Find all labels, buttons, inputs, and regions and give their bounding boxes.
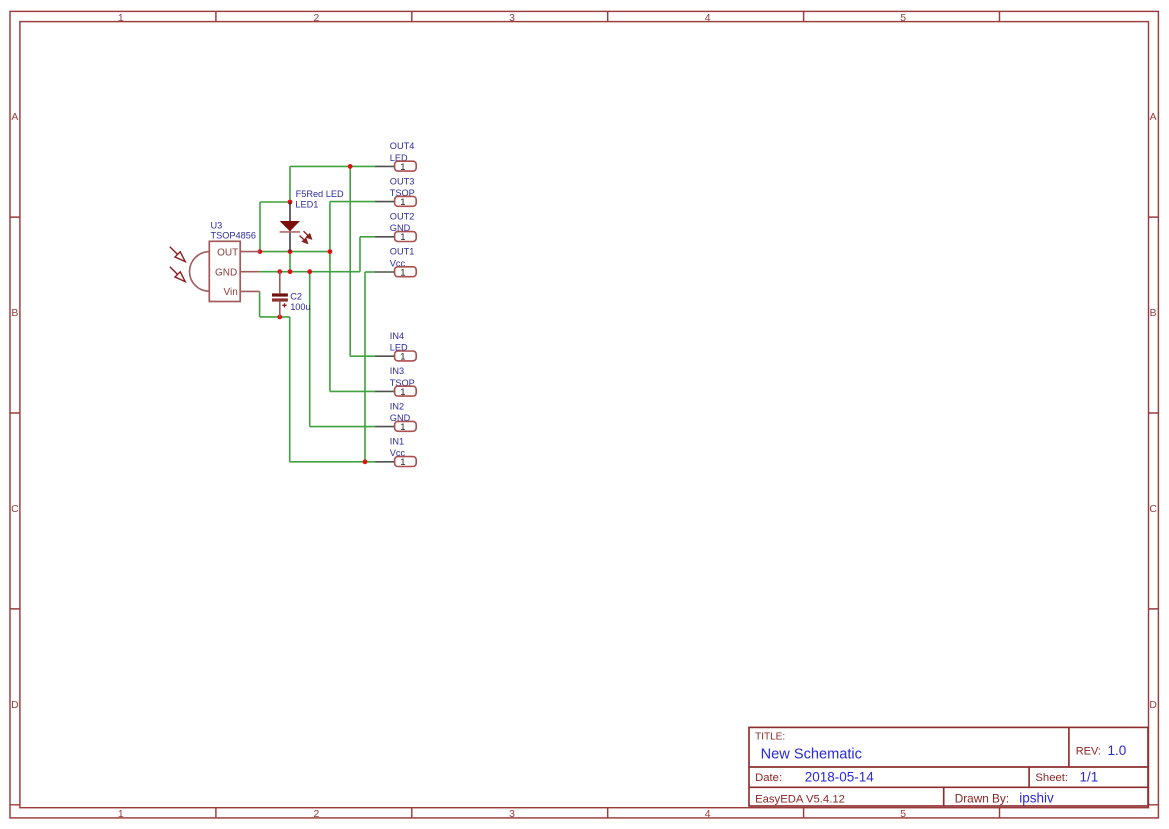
C2 top plate (272, 293, 288, 296)
LED1 emission arrow 2 (300, 236, 308, 244)
connector pin OUT1 (Vcc) (375, 247, 416, 279)
junction Vcc at IN1 row (363, 459, 368, 464)
connector pin IN4 (LED) (375, 331, 416, 363)
svg-text:D: D (1149, 700, 1157, 711)
pin pad box IN2 (395, 421, 417, 431)
wire net LED: IN4 row horizontal (350, 355, 376, 357)
svg-text:C: C (1149, 504, 1157, 515)
svg-text:1: 1 (400, 352, 405, 363)
svg-text:IN3: IN3 (390, 366, 404, 376)
LED1 pin line vertical (289, 202, 291, 252)
wire net GND: row horizontal from U3 (260, 271, 360, 273)
junction U3 OUT pin (258, 249, 263, 254)
wire net LED: LED1 anode riser (289, 166, 291, 202)
IC U3 TSOP4856 (170, 220, 260, 301)
pin line IN1 (375, 461, 394, 463)
junction C2 top on GND row (277, 269, 282, 274)
wire net Vcc: vertical to IN1 row (289, 317, 291, 462)
svg-text:4: 4 (705, 809, 711, 820)
svg-text:F5Red LED: F5Red LED (296, 189, 344, 199)
C2 top lead (279, 272, 281, 294)
svg-text:Drawn By:: Drawn By: (955, 791, 1009, 805)
wire net GND: OUT2 row horizontal (360, 236, 376, 238)
wire net Vcc: to capacitor bottom (260, 316, 290, 318)
svg-text:1: 1 (118, 809, 124, 820)
svg-text:1.0: 1.0 (1108, 743, 1127, 758)
connector pin OUT2 (GND) (375, 212, 416, 244)
SCHEMATIC (170, 164, 376, 464)
svg-text:U3: U3 (211, 220, 223, 230)
C2 plus sign (282, 303, 286, 307)
svg-text:5: 5 (900, 13, 906, 24)
svg-text:3: 3 (509, 809, 515, 820)
pin pad box OUT4 (395, 161, 417, 171)
connector pin OUT3 (TSOP) (375, 176, 416, 208)
pin line OUT1 (375, 271, 394, 273)
connector pin OUT4 (LED) (375, 141, 416, 173)
C2 bottom lead (279, 302, 281, 317)
wire net TSOP: OUT row horizontal (260, 251, 330, 253)
svg-text:2018-05-14: 2018-05-14 (805, 769, 875, 784)
svg-text:1: 1 (400, 422, 405, 433)
junction net LED at OUT4 row (348, 164, 353, 169)
pin line OUT3 (375, 201, 394, 203)
C2 bottom plate (272, 298, 288, 301)
wire net GND: IN2 row horizontal (310, 426, 377, 428)
U3 IR arrow 1 (170, 247, 185, 262)
LED1 emission arrow 1 (304, 231, 312, 239)
CONNECTOR PINS (375, 141, 416, 468)
pin pad box IN4 (395, 351, 417, 361)
svg-text:5: 5 (900, 809, 906, 820)
svg-text:C: C (11, 504, 19, 515)
wire LED1 bypass: left from anode (260, 201, 290, 203)
svg-text:1/1: 1/1 (1080, 769, 1099, 784)
pin pad box IN1 (395, 457, 417, 467)
svg-text:ipshiv: ipshiv (1019, 790, 1054, 805)
svg-text:TITLE:: TITLE: (755, 732, 785, 743)
svg-text:LED1: LED1 (295, 200, 318, 210)
svg-text:1: 1 (400, 232, 405, 243)
svg-text:IN2: IN2 (390, 401, 404, 411)
TITLE BLOCK (749, 727, 1148, 806)
svg-text:REV:: REV: (1076, 745, 1101, 757)
pin line OUT4 (375, 165, 394, 167)
pin pad box OUT3 (395, 196, 417, 206)
svg-text:TSOP4856: TSOP4856 (211, 231, 256, 241)
junction net TSOP riser (328, 249, 333, 254)
pin pad box IN3 (395, 386, 417, 396)
pin line IN2 (375, 426, 394, 428)
svg-text:1: 1 (400, 162, 405, 173)
LED1 triangle (280, 221, 300, 231)
wire net LED: OUT4 row horizontal (290, 165, 376, 167)
svg-text:OUT2: OUT2 (390, 212, 415, 222)
capacitor C2 (272, 272, 311, 317)
wire net TSOP: OUT3 row horizontal (330, 201, 376, 203)
wire LED cathode to GND row (289, 252, 291, 272)
connector pin IN2 (GND) (375, 401, 416, 433)
connector pin IN1 (Vcc) (375, 437, 416, 469)
wire net TSOP: vertical OUT3 to IN3 (329, 202, 331, 392)
svg-text:OUT: OUT (217, 247, 238, 258)
pin pad box OUT1 (395, 267, 417, 277)
U3 pin Vin line (240, 290, 259, 292)
svg-text:2: 2 (314, 13, 320, 24)
svg-text:A: A (11, 112, 18, 123)
svg-text:1: 1 (400, 457, 405, 468)
wire net Vcc: IN1 row horizontal (290, 461, 377, 463)
pin line IN3 (375, 390, 394, 392)
svg-text:Date:: Date: (755, 772, 782, 784)
svg-text:B: B (11, 308, 18, 319)
svg-text:C2: C2 (290, 291, 302, 301)
svg-text:EasyEDA V5.4.12: EasyEDA V5.4.12 (755, 793, 845, 805)
wire net TSOP: IN3 row horizontal (330, 390, 376, 392)
svg-text:OUT1: OUT1 (390, 247, 415, 257)
junction C2 bottom on Vcc (277, 315, 282, 320)
U3 body (209, 241, 240, 301)
svg-text:1: 1 (400, 267, 405, 278)
svg-text:GND: GND (215, 267, 237, 278)
junction LED1 cathode (288, 249, 293, 254)
svg-text:New Schematic: New Schematic (761, 747, 862, 763)
U3 lens arc (190, 252, 210, 292)
junction dots (258, 164, 368, 464)
svg-text:OUT3: OUT3 (390, 176, 415, 186)
junction LED1 anode (288, 200, 293, 205)
svg-text:1: 1 (400, 387, 405, 398)
wire LED1 bypass: down to OUT row (259, 202, 261, 252)
svg-text:IN1: IN1 (390, 437, 404, 447)
svg-text:A: A (1150, 112, 1157, 123)
wire net GND: riser to OUT2 row (359, 237, 361, 272)
LED LED1 (280, 189, 344, 251)
pin line OUT2 (375, 236, 394, 238)
svg-text:2: 2 (314, 809, 320, 820)
svg-text:Vin: Vin (224, 287, 238, 298)
svg-text:OUT4: OUT4 (390, 141, 415, 151)
wire net GND: vertical to IN2 row (309, 272, 311, 427)
U3 pin GND line (240, 271, 259, 273)
connector pin IN3 (TSOP) (375, 366, 416, 398)
svg-text:3: 3 (509, 13, 515, 24)
svg-text:1: 1 (400, 197, 405, 208)
U3 pin OUT line (240, 251, 260, 253)
svg-text:Sheet:: Sheet: (1035, 772, 1068, 784)
pin pad box OUT2 (395, 232, 417, 242)
svg-text:1: 1 (118, 13, 124, 24)
junction LED drop on GND row (288, 269, 293, 274)
junction GND riser to IN2 (307, 269, 312, 274)
wire net LED: vertical OUT4 to IN4 (349, 166, 351, 356)
wire net Vcc: vertical OUT1 to IN1 (364, 272, 366, 462)
svg-text:B: B (1150, 308, 1157, 319)
pin line IN4 (375, 355, 394, 357)
LED1 cathode bar (280, 231, 300, 233)
wire net Vcc: Vin drop (259, 291, 261, 317)
svg-text:D: D (11, 700, 19, 711)
wire net Vcc: OUT1 row horizontal (365, 271, 376, 273)
svg-text:100u: 100u (290, 302, 310, 312)
svg-text:IN4: IN4 (390, 331, 404, 341)
U3 IR arrow 2 (170, 267, 185, 282)
svg-text:4: 4 (705, 13, 711, 24)
